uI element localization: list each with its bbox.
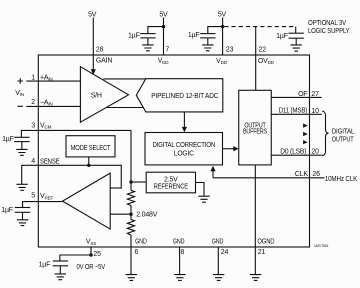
label OPTIONAL 3V LOGIC SUPPLY — [308, 20, 350, 35]
resistor R1 — [127, 190, 134, 205]
pin 22 OVDD label — [258, 46, 275, 65]
wire R2 to VSS rail — [130, 235, 132, 247]
wire OVDD pin 22 to output buffers — [255, 27, 257, 91]
svg-text:S/H: S/H — [91, 93, 102, 100]
junction 2.048V node — [129, 213, 132, 216]
bus arrows — [303, 124, 308, 145]
capacitor C2 1uF — [200, 33, 215, 35]
wire mode select to sense — [88, 157, 90, 165]
ground (SENSE) — [16, 184, 27, 190]
svg-text:SENSE: SENSE — [40, 159, 60, 166]
svg-text:DIGITAL CORRECTION: DIGITAL CORRECTION — [153, 142, 216, 149]
wire VREF pin 5 — [23, 202, 63, 208]
svg-text:27: 27 — [311, 91, 319, 98]
wire reference to ground — [196, 183, 205, 196]
wire 5V to VDD pin 23 — [222, 18, 224, 56]
block digital correction logic — [145, 133, 223, 165]
arrowhead GAIN into S/H — [91, 69, 96, 75]
op-amp reference buffer — [63, 173, 111, 229]
svg-text:OGND: OGND — [257, 238, 274, 245]
svg-text:7: 7 — [165, 46, 169, 53]
svg-text:6: 6 — [135, 249, 139, 256]
wire GND pin 8 — [179, 247, 181, 274]
svg-text:1: 1 — [31, 74, 35, 81]
svg-text:1µF: 1µF — [1, 207, 13, 214]
label VIN — [15, 90, 24, 97]
junction reference output node — [129, 180, 132, 183]
svg-text:VDD: VDD — [216, 58, 228, 65]
ground (reference) — [198, 196, 209, 202]
pin 3 VCM label — [31, 122, 51, 129]
brace digital output — [322, 111, 329, 156]
ground (C5) — [17, 220, 28, 226]
svg-text:LOGIC: LOGIC — [174, 151, 194, 158]
svg-text:5: 5 — [31, 193, 35, 200]
value 1uF (C4) — [2, 136, 14, 143]
wire OGND pin 21 — [254, 247, 256, 274]
svg-text:21: 21 — [258, 249, 266, 256]
svg-text:VIN: VIN — [15, 90, 24, 97]
svg-text:1420 TA01: 1420 TA01 — [314, 244, 329, 248]
svg-text:1µF: 1µF — [39, 261, 51, 268]
pin 2 -AIN label — [31, 99, 52, 107]
wire reference box to divider — [131, 181, 146, 183]
svg-text:GND: GND — [135, 238, 147, 245]
svg-text:+AIN: +AIN — [40, 74, 53, 81]
svg-text:GND: GND — [173, 238, 185, 245]
ground (C4) — [16, 149, 27, 155]
block output buffers — [239, 90, 272, 165]
wire dashed optional 3V supply — [224, 26, 295, 28]
wire amp input from sense — [110, 187, 122, 189]
wire ADC to correction logic — [183, 112, 185, 127]
svg-text:1µF: 1µF — [188, 32, 200, 39]
wire output buffers to OGND — [254, 165, 256, 247]
svg-text:BUFFERS: BUFFERS — [243, 129, 267, 136]
wire D0 pin 20 — [271, 154, 321, 156]
ground (C2) — [202, 45, 213, 51]
wire GND pin 6 — [130, 247, 132, 274]
pin 23 VDD label — [216, 46, 233, 65]
resistor R2 — [127, 220, 134, 236]
pin 7 VDD label — [158, 46, 170, 65]
svg-text:24: 24 — [221, 249, 229, 256]
junction VDD7 node — [162, 25, 165, 28]
pin 25 VSS label — [86, 239, 101, 258]
wire to capacitor C2 — [208, 27, 223, 34]
svg-text:8: 8 — [181, 249, 185, 256]
svg-text:3: 3 — [31, 122, 35, 129]
pin 8 GND label — [173, 238, 185, 256]
pin 24 GND label — [212, 238, 229, 256]
svg-text:GAIN: GAIN — [96, 58, 112, 65]
svg-text:LOGIC SUPPLY: LOGIC SUPPLY — [308, 28, 350, 35]
svg-text:OUTPUT: OUTPUT — [332, 137, 355, 144]
node VIN plus terminal — [17, 78, 23, 84]
pin 20 D0 (LSB) label — [280, 149, 319, 156]
capacitor C4 1uF (VCM) — [14, 136, 29, 138]
wire VSS to capacitor C6 — [60, 255, 91, 261]
node 5V (VDD pin 23 supply) — [218, 12, 227, 19]
wire to capacitor C1 — [148, 27, 164, 34]
label DIGITAL OUTPUT — [332, 129, 355, 144]
ground (C6) — [55, 274, 66, 280]
wire GND pin 24 — [217, 247, 219, 274]
wire amp to 2.048V node — [110, 213, 131, 215]
value 1uF (C3) — [276, 33, 288, 40]
svg-text:20: 20 — [311, 149, 319, 156]
svg-text:1µF: 1µF — [128, 32, 140, 39]
capacitor C1 1uF — [140, 33, 155, 35]
op-amp S/H — [80, 67, 128, 123]
watermark — [314, 244, 329, 248]
svg-text:OVDD: OVDD — [258, 58, 275, 65]
svg-text:10MHz CLK: 10MHz CLK — [325, 176, 358, 183]
junction SENSE / mode select — [87, 164, 90, 167]
wire OF pin 27 — [271, 96, 321, 98]
ground (pin 6) — [126, 275, 137, 281]
svg-text:OF: OF — [298, 91, 307, 98]
wire S/H bottom output to ADC — [106, 107, 144, 109]
wire CLK to correction logic — [212, 171, 214, 178]
pin 21 OGND label — [257, 238, 274, 256]
pin 5 VREF label — [31, 193, 53, 201]
value 1uF (C5) — [1, 207, 13, 214]
wire VCM pin 3 — [21, 130, 131, 137]
wire CLK pin 26 — [213, 177, 324, 179]
svg-text:VREF: VREF — [40, 193, 53, 200]
svg-text:2.5V: 2.5V — [164, 176, 178, 183]
svg-text:VDD: VDD — [158, 58, 170, 65]
svg-text:GND: GND — [212, 238, 224, 245]
svg-text:PIPELINED 12-BIT ADC: PIPELINED 12-BIT ADC — [151, 93, 218, 100]
pin 6 GND label — [135, 238, 147, 256]
ground (pin 8) — [174, 275, 185, 281]
IC outline — [38, 55, 309, 247]
value 1uF (C6) — [39, 261, 51, 268]
svg-text:5V: 5V — [88, 11, 97, 18]
capacitor C3 1uF — [289, 32, 304, 34]
svg-text:DIGITAL: DIGITAL — [332, 129, 355, 136]
pin 4 SENSE label — [31, 158, 60, 166]
svg-text:OPTIONAL 3V: OPTIONAL 3V — [308, 20, 346, 27]
arrowhead into output buffers — [233, 146, 238, 151]
svg-text:VSS: VSS — [86, 239, 96, 246]
wire S/H top output to ADC — [103, 78, 146, 80]
wire dashed corner to C3 — [295, 27, 297, 33]
pin 10 D11 (MSB) label — [279, 108, 319, 115]
svg-text:23: 23 — [226, 46, 234, 53]
node VIN minus terminal — [17, 105, 23, 107]
wire 5V to VDD pin 7 — [163, 18, 165, 56]
svg-text:25: 25 — [93, 251, 101, 258]
block mode select — [66, 136, 115, 157]
wire VCM rail to reference divider — [130, 130, 132, 190]
arrowhead into correction logic — [182, 127, 187, 132]
svg-text:4: 4 — [31, 158, 35, 165]
pin 28 label — [96, 46, 112, 64]
svg-text:VCM: VCM — [40, 122, 52, 129]
svg-text:1µF: 1µF — [2, 136, 14, 143]
ground (C3) — [291, 45, 302, 51]
pin 27 OF label — [298, 91, 319, 98]
svg-text:2: 2 — [31, 99, 35, 106]
arrowhead CLK into correction logic — [210, 166, 215, 171]
svg-text:REFERENCE: REFERENCE — [154, 184, 189, 191]
pin 1 +AIN label — [31, 74, 52, 81]
value 1uF (C2) — [188, 32, 200, 39]
ground (C1) — [142, 45, 153, 51]
svg-text:−AIN: −AIN — [40, 100, 53, 107]
svg-text:0V OR −5V: 0V OR −5V — [77, 264, 106, 271]
svg-text:D11 (MSB): D11 (MSB) — [279, 108, 308, 115]
wire -AIN pin 2 — [26, 105, 80, 107]
node 5V (VDD pin 7 supply) — [159, 11, 168, 18]
svg-text:CLK: CLK — [295, 171, 309, 178]
ground (pin 21) — [250, 275, 261, 281]
label 0V OR -5V — [77, 264, 106, 271]
pin 26 CLK label — [295, 171, 320, 178]
wire SENSE pin 4 — [22, 165, 122, 188]
junction VDD23 node — [221, 25, 224, 28]
svg-text:5V: 5V — [159, 11, 168, 18]
capacitor C6 1uF — [53, 260, 68, 262]
label 10MHz CLK — [325, 176, 358, 183]
node 5V (GAIN supply) — [88, 11, 97, 18]
value 1uF (C1) — [128, 32, 140, 39]
wire 5V to GAIN pin 28 — [92, 18, 94, 70]
svg-text:2.048V: 2.048V — [136, 212, 158, 219]
svg-text:MODE SELECT: MODE SELECT — [71, 145, 112, 152]
svg-text:22: 22 — [259, 46, 267, 53]
ground (pin 24) — [213, 275, 224, 281]
svg-text:D0 (LSB): D0 (LSB) — [280, 149, 306, 156]
wire correction logic to output buffers — [223, 148, 234, 150]
wire +AIN pin 1 — [26, 80, 80, 82]
wire D11 pin 10 — [271, 113, 321, 115]
svg-text:5V: 5V — [218, 12, 227, 19]
svg-text:28: 28 — [96, 46, 104, 53]
svg-text:1µF: 1µF — [276, 33, 288, 40]
capacitor C5 1uF (VREF) — [15, 207, 30, 209]
svg-text:26: 26 — [312, 171, 320, 178]
block 2.5V reference — [146, 172, 195, 193]
wire R1 to R2 — [130, 206, 132, 220]
svg-text:10: 10 — [311, 108, 319, 115]
block ADC banner — [136, 79, 223, 112]
wire VSS pin 25 — [90, 247, 92, 255]
value 2.048V — [136, 212, 158, 219]
junction VSS node — [89, 253, 92, 256]
